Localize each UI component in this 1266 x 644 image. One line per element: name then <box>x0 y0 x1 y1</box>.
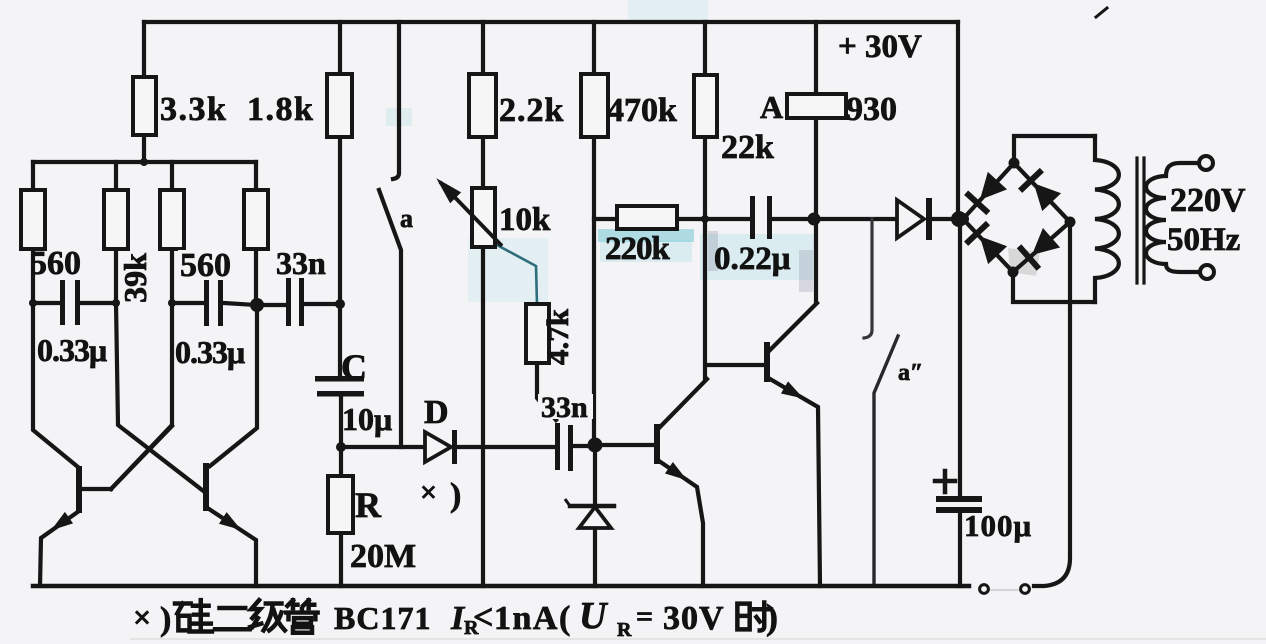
svg-text:): ) <box>450 477 461 514</box>
svg-text:33n: 33n <box>541 391 588 424</box>
svg-text:30V: 30V <box>663 600 725 637</box>
svg-text:a″: a″ <box>898 360 923 386</box>
svg-text:220V: 220V <box>1170 182 1246 219</box>
svg-text:R: R <box>355 485 382 525</box>
svg-text:U: U <box>579 595 609 637</box>
svg-text:22k: 22k <box>721 129 774 166</box>
svg-text:220k: 220k <box>605 231 671 267</box>
svg-text:100μ: 100μ <box>964 508 1032 543</box>
svg-text:A: A <box>760 89 783 125</box>
svg-text:1nA(: 1nA( <box>494 600 572 637</box>
svg-text:10μ: 10μ <box>342 401 392 437</box>
svg-text:): ) <box>160 601 171 638</box>
svg-text:×: × <box>420 476 437 509</box>
svg-text:560: 560 <box>30 245 81 282</box>
svg-text:C: C <box>341 347 367 387</box>
svg-text:): ) <box>766 597 778 637</box>
svg-text:=: = <box>636 600 653 633</box>
svg-text:×: × <box>133 599 151 635</box>
svg-text:0.33μ: 0.33μ <box>175 334 245 370</box>
svg-text:930: 930 <box>846 91 897 128</box>
svg-text:<: < <box>473 597 494 637</box>
svg-text:39k: 39k <box>117 253 153 303</box>
svg-text:50Hz: 50Hz <box>1167 222 1240 258</box>
svg-text:+ 30V: + 30V <box>838 29 922 65</box>
svg-text:0.33μ: 0.33μ <box>37 332 107 368</box>
svg-text:R: R <box>617 619 632 641</box>
svg-text:D: D <box>424 394 449 431</box>
svg-text:a: a <box>400 204 413 233</box>
svg-text:1.8k: 1.8k <box>247 91 314 128</box>
svg-text:33n: 33n <box>276 245 326 281</box>
svg-text:2.2k: 2.2k <box>499 92 564 129</box>
svg-text:4.7k: 4.7k <box>540 308 575 365</box>
svg-text:3.3k: 3.3k <box>160 91 227 128</box>
svg-text:0.22μ: 0.22μ <box>714 241 791 277</box>
svg-text:10k: 10k <box>499 202 551 238</box>
svg-text:560: 560 <box>180 247 231 284</box>
svg-text:470k: 470k <box>607 92 677 129</box>
svg-text:20M: 20M <box>350 538 416 575</box>
svg-text:BC171: BC171 <box>334 600 431 636</box>
